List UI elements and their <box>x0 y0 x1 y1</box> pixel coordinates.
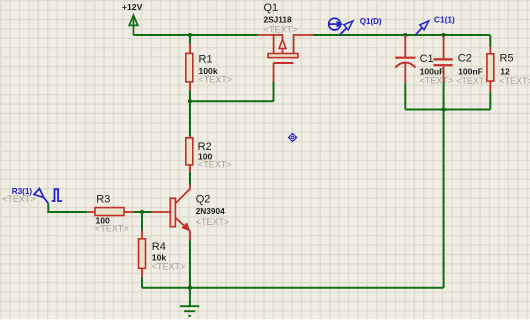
voltage probe C1(1) <box>416 21 429 35</box>
pin R1.1 <box>189 44 191 54</box>
wire Q1 drain rail to R5 <box>313 34 490 36</box>
resistor R5 <box>487 54 494 81</box>
svg-text:<TEXT>: <TEXT> <box>264 24 298 34</box>
wire cap branch down to ground rail <box>443 110 445 288</box>
pin R5.2 <box>489 81 491 92</box>
wire +12V rail to R1 top and Q1 source <box>134 34 258 36</box>
wire C1 bottom <box>404 82 406 109</box>
resistor R1 <box>186 53 193 82</box>
svg-text:R5: R5 <box>500 53 514 65</box>
svg-text:<TEXT>: <TEXT> <box>95 223 129 233</box>
svg-text:C2: C2 <box>458 53 472 65</box>
current probe Q1(D) <box>328 18 353 35</box>
svg-text:2SJ118: 2SJ118 <box>264 15 293 25</box>
svg-text:R4: R4 <box>152 241 166 253</box>
transistor Q2 <box>152 185 190 232</box>
wire input to R3 <box>48 203 87 212</box>
pin R3.1 <box>87 211 95 213</box>
node junction ground rail/emitter <box>188 286 192 290</box>
wire R4 bottom <box>141 278 143 288</box>
svg-text:R3: R3 <box>96 194 110 206</box>
svg-text:+12V: +12V <box>122 2 143 12</box>
pin R4.2 <box>141 268 143 277</box>
wire bottom cap rail <box>405 109 490 111</box>
svg-text:<TEXT>: <TEXT> <box>199 74 233 84</box>
wire gate net horizontal <box>190 100 274 102</box>
ground <box>180 288 199 316</box>
origin marker <box>288 133 298 143</box>
svg-text:Q1(D): Q1(D) <box>360 17 382 26</box>
node junction base/R4 top <box>140 210 144 214</box>
svg-text:C1: C1 <box>420 53 434 65</box>
wire ground rail <box>142 287 444 289</box>
svg-text:<TEXT>: <TEXT> <box>152 261 186 271</box>
svg-text:<TEXT>: <TEXT> <box>198 160 232 170</box>
node junction R1/R2/Q1 gate <box>188 99 192 103</box>
svg-text:Q1: Q1 <box>264 2 279 14</box>
resistor R3 <box>95 208 124 216</box>
wire R5 bottom <box>489 92 491 110</box>
pin C2.1 <box>443 35 445 59</box>
resistor R4 <box>139 239 146 269</box>
node junction rail/C2 top <box>442 33 446 37</box>
wire R2 top <box>189 101 191 136</box>
node junction rail/C1 top <box>403 33 407 37</box>
pin R5.1 <box>489 47 491 54</box>
node junction cap rail/C2 bottom <box>442 107 446 111</box>
pin R1.2 <box>189 82 191 91</box>
wire gate net vertical <box>273 82 275 101</box>
wire R2 bottom to Q2 collector <box>189 172 191 185</box>
capacitor C2 <box>434 59 453 65</box>
resistor R2 <box>186 138 193 165</box>
pin C2.2 <box>443 65 445 82</box>
wire R1 bottom <box>189 91 191 102</box>
node junction rail/R1 top <box>188 33 192 37</box>
wire R3 to Q2 base <box>133 211 151 213</box>
pin C1.2 <box>404 64 406 83</box>
pin Q1 gate <box>273 63 275 82</box>
pin R3.2 <box>124 211 133 213</box>
pin R2.1 <box>189 136 191 138</box>
capacitor C1 <box>395 58 415 68</box>
pin R4.1 <box>141 230 143 238</box>
wire C2 bottom <box>443 82 445 109</box>
svg-text:R1: R1 <box>199 53 213 65</box>
pin R2.2 <box>189 165 191 172</box>
mosfet Q1 <box>258 34 314 63</box>
wire Q2 emitter to ground rail <box>189 241 191 288</box>
svg-text:<TEXT>: <TEXT> <box>499 76 530 86</box>
svg-text:<TEXT>: <TEXT> <box>420 76 454 86</box>
pin Q2 emitter <box>189 231 191 241</box>
wire R5 top <box>489 35 491 47</box>
power +12V symbol <box>129 15 138 35</box>
svg-text:C1(1): C1(1) <box>434 15 455 25</box>
svg-text:<TEXT>: <TEXT> <box>196 217 230 227</box>
wire R1 top <box>189 35 191 44</box>
svg-text:2N3904: 2N3904 <box>196 206 225 216</box>
wire R4 top <box>141 212 143 230</box>
svg-text:Q2: Q2 <box>196 193 211 205</box>
svg-text:<TEXT>: <TEXT> <box>2 194 36 204</box>
pin C1.1 <box>404 35 406 58</box>
svg-text:<TEXT>: <TEXT> <box>456 76 490 86</box>
generator pulse symbol <box>52 189 63 201</box>
voltage probe R3(1) input <box>34 189 48 204</box>
